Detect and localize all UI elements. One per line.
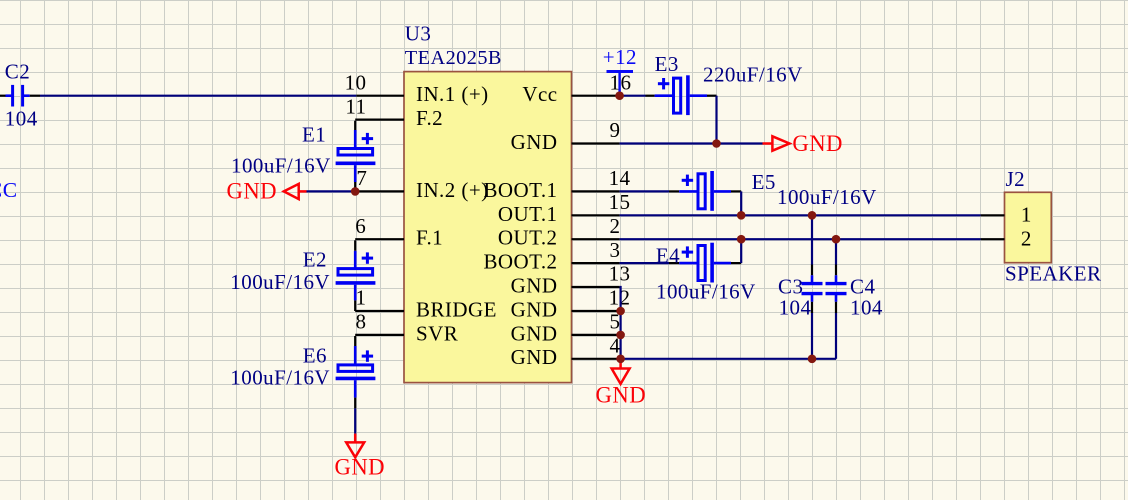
svg-text:GND: GND bbox=[792, 131, 843, 156]
svg-text:1: 1 bbox=[356, 286, 367, 310]
junction at pin 5 / GND bus bbox=[616, 331, 625, 340]
svg-text:GND: GND bbox=[511, 321, 558, 345]
junction at E4 / pin 2 net bbox=[737, 235, 746, 244]
IC U3 body bbox=[404, 72, 572, 383]
wire U3 pin 11 elbow down to E1 bbox=[354, 121, 356, 130]
wire C2 to U3 pin 10 bbox=[40, 95, 356, 97]
U3 pin 6 bbox=[355, 238, 404, 240]
svg-text:E4: E4 bbox=[656, 243, 680, 267]
wire U3 pin 8 elbow down to E6 bbox=[354, 336, 356, 346]
power port GND (below pin 4) bbox=[596, 359, 647, 408]
J2 pin 1 bbox=[981, 214, 1005, 216]
svg-text:OUT.1: OUT.1 bbox=[498, 202, 558, 226]
junction at E3 / pin 9 net bbox=[712, 139, 721, 148]
svg-text:104: 104 bbox=[779, 295, 812, 319]
U3 pin 14 bbox=[572, 190, 620, 192]
svg-text:E5: E5 bbox=[752, 170, 776, 194]
wire C3 lower lead bbox=[811, 312, 813, 358]
svg-text:VCC: VCC bbox=[0, 178, 18, 202]
U3 pin 10 bbox=[356, 95, 404, 97]
power port GND (left, at U3 pin 7) bbox=[226, 178, 306, 203]
U3 pin 12 bbox=[572, 310, 620, 312]
svg-text:GND: GND bbox=[511, 345, 558, 369]
U3 pin 15 bbox=[572, 214, 620, 216]
svg-text:BOOT.2: BOOT.2 bbox=[483, 250, 557, 274]
svg-text:1: 1 bbox=[1021, 203, 1032, 227]
capacitor C3 bbox=[778, 265, 823, 320]
svg-text:F.1: F.1 bbox=[416, 226, 443, 250]
svg-text:OUT.2: OUT.2 bbox=[498, 226, 558, 250]
svg-text:Vcc: Vcc bbox=[522, 82, 557, 106]
svg-text:15: 15 bbox=[609, 190, 631, 214]
wire U3 pin 6 elbow down to E2 bbox=[354, 240, 356, 251]
svg-text:C2: C2 bbox=[5, 60, 30, 84]
svg-text:GND: GND bbox=[335, 455, 386, 480]
wire pin 3 to E4 bbox=[620, 262, 669, 264]
wire pin 9 to GND port bbox=[620, 142, 763, 144]
svg-text:BOOT.1: BOOT.1 bbox=[483, 178, 557, 202]
svg-text:E1: E1 bbox=[302, 123, 326, 147]
junction at E5 / pin 15 net bbox=[737, 211, 746, 220]
svg-text:100uF/16V: 100uF/16V bbox=[231, 154, 331, 178]
svg-text:SPEAKER: SPEAKER bbox=[1005, 262, 1102, 286]
svg-text:2: 2 bbox=[610, 214, 621, 238]
U3 pin 4 bbox=[572, 358, 620, 360]
junction at E1 / U3 pin 7 bbox=[351, 187, 360, 196]
svg-text:GND: GND bbox=[596, 382, 647, 407]
svg-text:IN.1 (+): IN.1 (+) bbox=[416, 82, 489, 106]
svg-text:104: 104 bbox=[5, 106, 38, 130]
capacitor C2 bbox=[0, 60, 40, 131]
svg-text:3: 3 bbox=[610, 238, 621, 262]
capacitor C4 bbox=[826, 265, 883, 320]
capacitor E3 bbox=[646, 52, 803, 115]
U3 pin 13 bbox=[572, 286, 620, 288]
svg-text:BRIDGE: BRIDGE bbox=[416, 297, 497, 321]
svg-text:TEA2025B: TEA2025B bbox=[405, 47, 502, 69]
junction at C3 / GND net bbox=[808, 355, 817, 364]
wire E6 to GND bbox=[354, 408, 356, 433]
wire C4 lower lead elbow to GND net bbox=[835, 312, 837, 358]
svg-text:GND: GND bbox=[511, 274, 558, 298]
svg-text:8: 8 bbox=[356, 310, 367, 334]
svg-text:9: 9 bbox=[610, 118, 621, 142]
svg-text:100uF/16V: 100uF/16V bbox=[230, 365, 330, 389]
wire pin 14 to E5 bbox=[620, 190, 669, 192]
svg-text:14: 14 bbox=[609, 166, 631, 190]
U3 pin 7 bbox=[356, 190, 404, 192]
U3 pin 5 bbox=[572, 334, 620, 336]
U3 pin 3 bbox=[572, 262, 620, 264]
wire E4 elbow up to pin 2 net bbox=[740, 239, 742, 263]
capacitor E6 bbox=[230, 344, 375, 409]
wire GND to U3 pin 7 bbox=[307, 190, 357, 192]
junction at C4 / pin 2 net bbox=[832, 235, 841, 244]
wire GND bus vertical (pins 13,12,5,4) bbox=[620, 287, 621, 359]
svg-text:U3: U3 bbox=[405, 21, 432, 45]
svg-text:2: 2 bbox=[1021, 227, 1032, 251]
junction at pin 12 / GND bus bbox=[616, 307, 625, 316]
J2 pin 2 bbox=[981, 238, 1005, 240]
wire pin16 junction to E3 bbox=[620, 95, 646, 97]
svg-text:SVR: SVR bbox=[416, 321, 458, 345]
svg-text:100uF/16V: 100uF/16V bbox=[777, 185, 877, 209]
svg-text:104: 104 bbox=[850, 295, 883, 319]
svg-text:F.2: F.2 bbox=[416, 106, 443, 130]
wire GND net bottom row bbox=[621, 358, 836, 360]
svg-text:220uF/16V: 220uF/16V bbox=[703, 63, 803, 87]
capacitor E4 bbox=[656, 243, 756, 304]
U3 pin 1 bbox=[355, 310, 404, 312]
wire C4 upper lead bbox=[835, 239, 837, 264]
U3 pin 9 bbox=[572, 142, 620, 144]
power port +12 bbox=[603, 45, 637, 96]
svg-text:GND: GND bbox=[511, 297, 558, 321]
svg-text:E2: E2 bbox=[303, 248, 327, 272]
capacitor E5 bbox=[669, 170, 877, 211]
power port GND (below E6) bbox=[335, 434, 386, 480]
svg-text:J2: J2 bbox=[1006, 167, 1026, 191]
svg-text:7: 7 bbox=[356, 166, 367, 190]
capacitor E1 bbox=[231, 123, 375, 192]
svg-text:IN.2 (+): IN.2 (+) bbox=[416, 178, 489, 202]
wire C3 upper lead bbox=[811, 215, 813, 264]
svg-text:+12: +12 bbox=[603, 45, 637, 69]
wire pin 2 net to J2 pin 2 bbox=[620, 238, 981, 240]
U3 pin 2 bbox=[572, 238, 620, 240]
svg-text:100uF/16V: 100uF/16V bbox=[230, 270, 330, 294]
svg-text:E6: E6 bbox=[303, 344, 327, 368]
svg-text:GND: GND bbox=[511, 130, 558, 154]
U3 pin 16 bbox=[572, 95, 620, 97]
wire E3 elbow down to pin 9 net bbox=[715, 96, 717, 144]
svg-text:11: 11 bbox=[345, 94, 366, 118]
junction at pin 16 / +12 / E3 bbox=[615, 91, 624, 100]
power port GND (right of pin 9) bbox=[763, 131, 843, 156]
svg-text:100uF/16V: 100uF/16V bbox=[656, 280, 756, 304]
svg-text:13: 13 bbox=[609, 262, 631, 286]
U3 pin 8 bbox=[355, 334, 404, 336]
svg-text:GND: GND bbox=[226, 178, 277, 203]
wire pin 15 net to J2 pin 1 bbox=[620, 214, 981, 216]
U3 pin 11 bbox=[355, 118, 404, 120]
junction at pin 4 / GND bus bbox=[616, 355, 625, 364]
svg-text:6: 6 bbox=[355, 214, 366, 238]
svg-text:10: 10 bbox=[345, 70, 367, 94]
junction at C3 / pin 15 net bbox=[808, 211, 817, 220]
capacitor E2 bbox=[230, 248, 375, 312]
connector J2 bbox=[981, 167, 1102, 286]
IC U3 TEA2025B bbox=[345, 21, 632, 382]
wire E5 elbow down to pin 15 net bbox=[740, 191, 742, 215]
svg-text:E3: E3 bbox=[655, 52, 679, 76]
